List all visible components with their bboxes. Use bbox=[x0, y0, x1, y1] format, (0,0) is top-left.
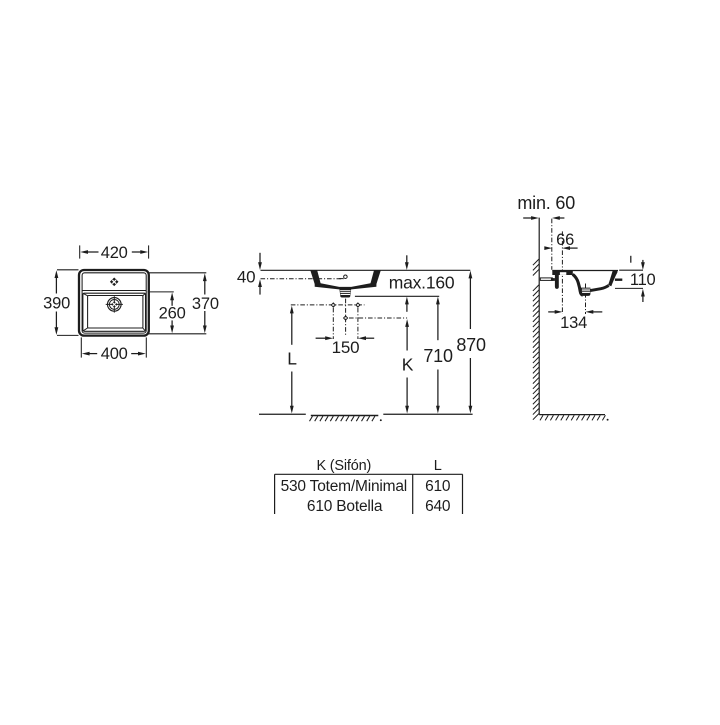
dimension 370 (inner depth right) bbox=[148, 272, 207, 274]
dimension 260 (basin to back edge) bbox=[148, 291, 174, 293]
svg-text:260: 260 bbox=[159, 304, 186, 322]
front view: floor hatching bbox=[311, 415, 379, 417]
front view: siphon level dash-dot line bbox=[349, 317, 407, 319]
side view: bowl rear shell curve bbox=[573, 274, 583, 295]
top view: drain symbol (concentric circles with crosshair) bbox=[108, 298, 122, 312]
side view: fixing hole axis dash-dot bbox=[561, 231, 563, 314]
side view: wall face line bbox=[538, 218, 540, 415]
svg-text:min. 60: min. 60 bbox=[517, 193, 575, 213]
front view: drain axis (vertical dash-dot) bbox=[345, 299, 347, 336]
front view: right fixing hole axis bbox=[357, 308, 359, 339]
svg-text:L: L bbox=[434, 458, 442, 474]
front view: floor line bbox=[259, 413, 306, 415]
dimension 390 (left side depth) bbox=[57, 269, 79, 271]
dimension 110 (basin height) bbox=[619, 269, 643, 271]
side view: rear deck (solid section with tap hole) bbox=[552, 270, 573, 275]
dimension 134 (fixing hole to drain axis) bbox=[548, 311, 556, 313]
dimension 40 (rim to mounting line) bbox=[259, 253, 261, 264]
svg-text:530 Totem/Minimal: 530 Totem/Minimal bbox=[281, 478, 407, 495]
side view: floor hatching bbox=[540, 415, 543, 420]
table: header underline bbox=[275, 473, 463, 475]
dimension max.160 bottom arrow bbox=[405, 297, 409, 305]
svg-text:640: 640 bbox=[425, 498, 451, 515]
dimension 710 (vertical) bbox=[436, 297, 440, 305]
svg-text:370: 370 bbox=[192, 295, 219, 313]
dimension max.160 bottom reference line under basin bbox=[355, 295, 439, 297]
svg-text:134: 134 bbox=[560, 314, 587, 332]
svg-text:K (Sifón): K (Sifón) bbox=[316, 458, 371, 474]
front view: fixing holes dash-dot level line bbox=[291, 304, 365, 306]
side view: tap axis dash-dot bbox=[551, 219, 553, 270]
side view: wall hatching bbox=[533, 259, 539, 265]
front view: left fixing hole mark bbox=[331, 302, 336, 307]
top view: bevel miter lines at basin corners bbox=[83, 294, 88, 297]
front view: overflow hole bbox=[344, 275, 348, 279]
dimension 400 (bottom width) bbox=[80, 337, 82, 357]
front view: basin bottom shell bbox=[315, 283, 377, 289]
front view: left fixing hole axis bbox=[332, 308, 334, 339]
dimension 870 (vertical) bbox=[469, 271, 473, 279]
side view: front wall of basin bbox=[608, 270, 617, 286]
svg-text:max.160: max.160 bbox=[389, 272, 455, 292]
dimension L (left vertical) bbox=[290, 306, 294, 314]
table: column divider bbox=[412, 474, 414, 514]
svg-text:710: 710 bbox=[423, 346, 453, 366]
side view: rear wall of basin bbox=[555, 271, 559, 289]
top view: basin opening outer edge bbox=[83, 293, 146, 331]
dimension K (vertical to siphon line) bbox=[405, 319, 409, 327]
svg-text:400: 400 bbox=[101, 345, 128, 363]
svg-text:390: 390 bbox=[43, 294, 70, 312]
side view: basin rim top line bbox=[552, 270, 618, 272]
svg-text:40: 40 bbox=[237, 267, 256, 286]
svg-text:66: 66 bbox=[556, 231, 574, 249]
side view: floor line bbox=[539, 414, 605, 416]
front view: basin left wall (section) bbox=[310, 270, 321, 284]
top view: outer rim of basin (rounded square) bbox=[79, 270, 149, 336]
front view: right fixing hole mark bbox=[355, 302, 360, 307]
top view: deck line (back ledge) bbox=[82, 290, 146, 292]
top view: faucet hole symbol bbox=[110, 278, 119, 287]
dimension max.160 (countertop thickness) top arrow bbox=[406, 255, 408, 263]
svg-text:870: 870 bbox=[456, 335, 486, 355]
svg-text:610 Botella: 610 Botella bbox=[307, 498, 383, 515]
svg-text:110: 110 bbox=[630, 271, 656, 289]
table: right border bbox=[462, 474, 464, 514]
side view: wall fixing bracket bbox=[540, 278, 552, 281]
svg-text:150: 150 bbox=[332, 338, 360, 357]
side view: front fixing tab bbox=[615, 279, 622, 281]
front view: siphon connection mark bbox=[343, 315, 348, 320]
front view: drain/waste outlet with strainer bbox=[339, 288, 351, 297]
dimension 420 (top width) bbox=[79, 245, 81, 258]
front view: basin right wall (section) bbox=[370, 270, 381, 284]
side view: drain axis dash-dot bbox=[585, 284, 587, 315]
svg-text:610: 610 bbox=[425, 478, 451, 495]
svg-text:K: K bbox=[402, 354, 414, 374]
svg-text:420: 420 bbox=[101, 244, 128, 262]
side view: bowl bottom toward front bbox=[590, 285, 609, 290]
table: left border bbox=[274, 474, 276, 514]
front view: mounting level dash-dot line bbox=[261, 278, 344, 280]
top view: inner rim edge bbox=[82, 273, 146, 333]
svg-text:L: L bbox=[287, 348, 297, 368]
dimension 150 (fixing holes spacing) bbox=[316, 337, 327, 339]
top view: basin opening inner edge bbox=[88, 296, 143, 329]
front view: countertop/rim level line bbox=[261, 269, 471, 271]
side view: drain outlet with strainer bbox=[580, 288, 590, 296]
